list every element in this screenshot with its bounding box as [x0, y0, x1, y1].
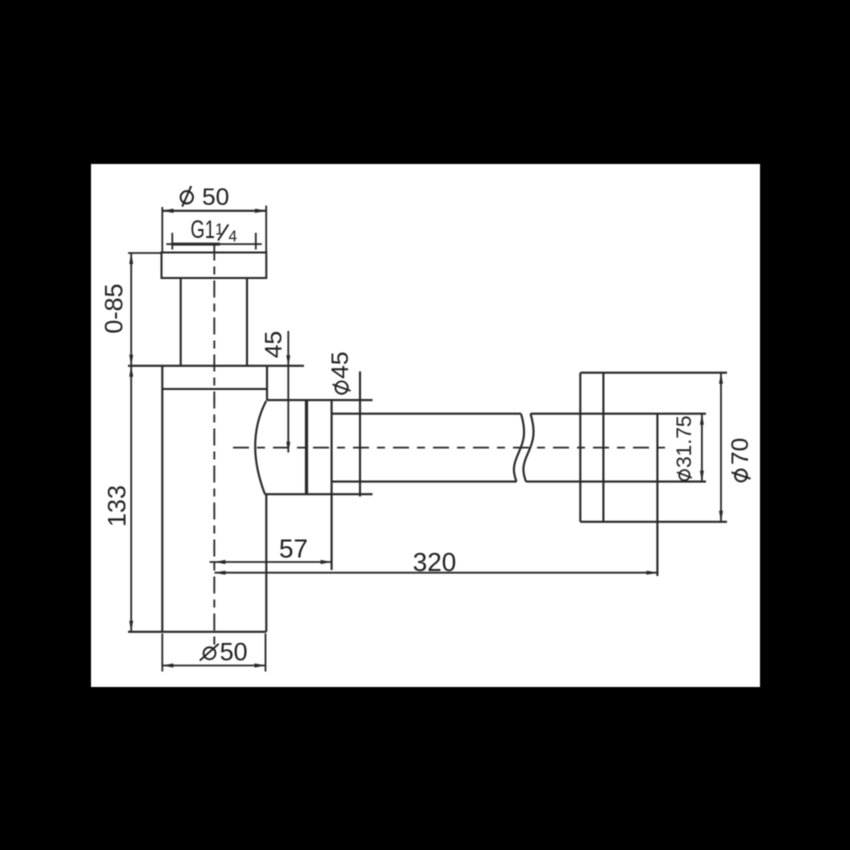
arrow dia50-bottom left [162, 663, 173, 667]
arrow 0-85 bottom [129, 355, 133, 366]
svg-text:50: 50 [202, 184, 229, 211]
cylinder right face + dia45 dimension line [359, 371, 361, 496]
svg-text:133: 133 [104, 485, 132, 527]
arrow 133 top [129, 366, 133, 377]
label dia50 bottom [200, 639, 248, 667]
horizontal pipe bottom wall (left of break) [332, 481, 517, 483]
thread line left tick [171, 233, 173, 250]
dia50 top dimension line [162, 210, 266, 212]
body bottom line [128, 631, 266, 633]
body top flange top line (extended both sides) [128, 365, 304, 367]
label dia31.75 (rotated) [673, 415, 696, 480]
arrow dia31.75 top [700, 414, 704, 425]
arrow dia70 top [719, 373, 723, 384]
label dia70 (rotated) [727, 438, 754, 482]
320 dimension line [214, 572, 658, 574]
arrow 133 bottom [129, 621, 133, 632]
label dia45 (rotated) [327, 352, 354, 394]
wall flange left edge [579, 373, 581, 522]
arrow 320 right [647, 571, 658, 575]
horizontal pipe bottom wall (right of break, + dim extension) [526, 481, 706, 483]
svg-text:45: 45 [261, 331, 288, 358]
svg-text:320: 320 [413, 547, 456, 577]
arrow 57 right [321, 560, 332, 564]
body right wall upper stub [266, 366, 268, 401]
svg-text:4: 4 [229, 229, 238, 246]
white drawing panel [91, 164, 760, 687]
wall flange top edge + dia70 extension [580, 372, 727, 374]
pipe end face + 320 extension line [656, 414, 658, 576]
dia50 top extension left [161, 207, 163, 253]
horizontal centerline of pipe [233, 447, 665, 449]
body right wall lower [265, 494, 267, 632]
dia31.75 dimension line [701, 414, 703, 482]
arrow dia70 bottom [719, 511, 723, 522]
svg-text:50: 50 [220, 639, 248, 667]
pipe break curve left [514, 414, 524, 482]
arrow dia31.75 bottom [700, 471, 704, 482]
thread line right stub [256, 243, 262, 245]
arrow 0-85 top [129, 253, 133, 264]
dia50 bottom extension right [265, 634, 267, 672]
57 dimension line [210, 561, 332, 563]
svg-text:G1: G1 [191, 216, 216, 244]
45 dimension line [287, 331, 289, 453]
trap outlet cylinder bottom line [265, 493, 373, 495]
svg-text:1: 1 [215, 222, 224, 239]
dia50 top extension right [265, 206, 267, 253]
pipe break curve right [523, 414, 533, 482]
thick joint line on cylinder [305, 400, 308, 494]
svg-text:0-85: 0-85 [100, 284, 128, 334]
horizontal pipe top wall (left of break) [332, 413, 521, 415]
svg-text:45: 45 [327, 352, 354, 379]
body top flange bottom line [162, 388, 267, 390]
inlet pipe left wall [180, 278, 182, 366]
arrow 45 top [286, 355, 290, 366]
dia70 dimension line [720, 373, 722, 522]
inlet flange (top escutcheon) [162, 253, 267, 279]
wall flange bottom edge + dia70 extension [580, 521, 727, 523]
vertical centerline of body [213, 244, 215, 646]
arrow 45 bottom [286, 442, 290, 453]
G1 1/4 thread line thick part [172, 243, 220, 246]
0-85 / 133 dimension line [130, 253, 132, 632]
G1 1/4 thread line thin part [220, 243, 256, 245]
body/cylinder intersection arc [255, 401, 266, 494]
svg-text:57: 57 [279, 533, 308, 563]
label dia50 top [181, 184, 230, 211]
thread line left stub [166, 243, 172, 245]
label G1 1/4 [191, 216, 238, 246]
dia50 bottom extension left [161, 634, 163, 672]
wall flange right edge [602, 373, 604, 522]
arrow dia50-top right [255, 209, 266, 213]
nut joint line + 57 extension line [331, 400, 333, 570]
horizontal pipe top wall (right of break, through flange, + dim extension) [531, 413, 707, 415]
svg-text:31.75: 31.75 [673, 415, 696, 468]
arrow 320 left [214, 571, 225, 575]
thread line right tick [255, 233, 257, 250]
arrow dia50-bottom right [255, 663, 266, 667]
inlet pipe right wall [246, 278, 248, 366]
body left wall [161, 366, 163, 632]
arrow dia50-top left [162, 209, 173, 213]
trap outlet cylinder top line [267, 399, 373, 401]
svg-text:70: 70 [727, 438, 754, 465]
arrow 57 left [214, 560, 225, 564]
dia50 bottom dimension line [162, 665, 265, 667]
0-85 top extension line [128, 252, 162, 254]
